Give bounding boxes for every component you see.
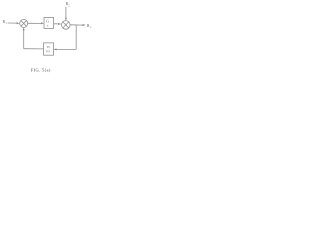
svg-text:FIG. 5(a): FIG. 5(a) — [31, 67, 51, 72]
summing junction S1 — [20, 19, 28, 27]
wire G to S2 — [54, 23, 60, 25]
wire input arrow — [8, 22, 18, 24]
svg-text:2: 2 — [68, 4, 70, 7]
block H — [44, 43, 54, 55]
label R1 — [3, 20, 8, 25]
wire R2 down into S2 — [65, 7, 67, 19]
svg-text:(s): (s) — [46, 49, 49, 53]
wire H to left leg — [24, 48, 44, 50]
wire left leg up into S1 — [23, 29, 25, 48]
summing junction S2 — [62, 21, 71, 30]
svg-text:s: s — [47, 24, 49, 28]
block G — [44, 17, 54, 28]
wire takeoff to H — [55, 48, 76, 50]
label C1 output — [87, 24, 92, 29]
svg-text:1: 1 — [5, 22, 7, 25]
wire S1 to G — [28, 22, 42, 24]
svg-text:o: o — [90, 26, 92, 29]
label R2 — [66, 2, 71, 7]
wire output — [70, 24, 84, 26]
wire takeoff down — [75, 25, 77, 50]
